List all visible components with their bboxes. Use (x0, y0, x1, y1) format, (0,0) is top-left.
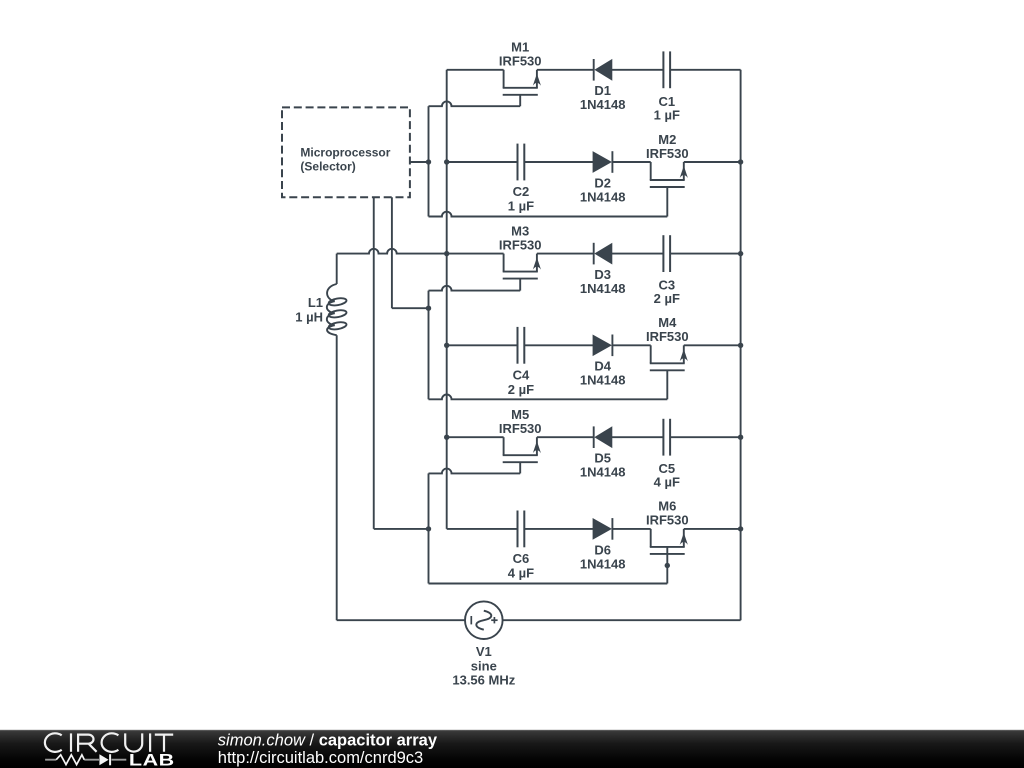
wire M1 gate (429, 101, 521, 106)
svg-text:1N4148: 1N4148 (580, 189, 626, 204)
wire row1 M1-to-D1 (537, 69, 594, 71)
svg-text:IRF530: IRF530 (646, 329, 689, 344)
wire gate bus pair 1 (428, 106, 430, 216)
wire row6 rail-to-C6 (447, 528, 518, 530)
footer bar (0, 730, 1024, 768)
svg-text:http://circuitlab.com/cnrd9c3: http://circuitlab.com/cnrd9c3 (218, 749, 423, 767)
wire row4 C4-to-D4 (524, 344, 593, 346)
transistor M5 IRF530 (503, 437, 541, 473)
wire left rail bus B (446, 70, 448, 529)
svg-text:C2: C2 (513, 184, 530, 199)
label C2 (513, 184, 530, 199)
label C1 value 1uF (654, 107, 680, 122)
CircuitLab logo LAB lettering (129, 752, 175, 768)
wire row4 D4-to-M4 (612, 344, 650, 346)
wire M6 gate (429, 583, 668, 585)
label C4 value 2uF (508, 382, 534, 397)
wire row5 rail-to-M5 (447, 436, 504, 438)
wire L1 bottom lead (336, 335, 338, 620)
transistor M6 IRF530 (body tied to gate) (650, 529, 688, 584)
label M5 (511, 407, 529, 422)
label D3 (594, 267, 611, 282)
label M1 value IRF530 (499, 54, 542, 69)
label D1 (594, 83, 611, 98)
svg-text:LAB: LAB (129, 752, 175, 768)
svg-text:C6: C6 (513, 551, 530, 566)
svg-text:Microprocessor: Microprocessor (300, 145, 390, 159)
diode D4 1N4148 (593, 335, 612, 357)
label L1 value 1uH (295, 310, 323, 325)
label M6 (658, 499, 676, 514)
label D2 value 1N4148 (580, 189, 626, 204)
node right rail junction row 3 (738, 251, 743, 256)
wire select line 2 vertical (U1 to pair 2) (391, 197, 393, 308)
diode D3 1N4148 (594, 243, 612, 265)
wire row6 D6-to-M6 (612, 528, 650, 530)
wire row5 M5-to-D5 (537, 436, 594, 438)
svg-text:C4: C4 (513, 367, 530, 382)
label M4 value IRF530 (646, 329, 689, 344)
svg-text:13.56 MHz: 13.56 MHz (452, 672, 515, 687)
wire row2 D2-to-M2 (612, 161, 650, 163)
svg-text:L1: L1 (308, 295, 323, 310)
wire row1 D1-to-C1 (612, 69, 664, 71)
transistor M2 IRF530 (650, 162, 688, 217)
svg-text:D3: D3 (594, 267, 611, 282)
wire row3 C3-to-rail (670, 253, 741, 255)
capacitor C2 1uF (518, 144, 525, 181)
svg-text:V1: V1 (476, 644, 492, 659)
diode D5 1N4148 (594, 426, 612, 448)
transistor M3 IRF530 (503, 254, 541, 291)
wire M2 gate (429, 212, 668, 217)
svg-text:M6: M6 (658, 499, 676, 514)
svg-text:IRF530: IRF530 (499, 237, 542, 252)
wire row2 C2-to-D2 (524, 161, 593, 163)
svg-text:simon.chow / capacitor array: simon.chow / capacitor array (218, 732, 438, 750)
wire row6 C6-to-D6 (524, 528, 593, 530)
label M2 value IRF530 (646, 146, 689, 161)
svg-text:1 µF: 1 µF (508, 199, 534, 214)
label D3 value 1N4148 (580, 281, 626, 296)
svg-text:M1: M1 (511, 40, 529, 55)
label M5 value IRF530 (499, 421, 542, 436)
capacitor C3 2uF (663, 235, 670, 272)
CircuitLab logo CIRCUIT lettering (45, 733, 173, 752)
label M3 (511, 223, 529, 238)
svg-text:1 µH: 1 µH (295, 310, 323, 325)
svg-text:M3: M3 (511, 223, 529, 238)
label M3 value IRF530 (499, 237, 542, 252)
svg-text:IRF530: IRF530 (646, 146, 689, 161)
node right rail junction row 2 (738, 159, 743, 164)
node right rail junction row 6 (738, 526, 743, 531)
svg-text:M5: M5 (511, 407, 529, 422)
diode D1 1N4148 (594, 59, 612, 81)
capacitor C4 2uF (518, 327, 525, 364)
label C3 (658, 278, 675, 293)
wire row2 rail-to-C2 (447, 161, 518, 163)
svg-text:1N4148: 1N4148 (580, 465, 626, 480)
label C1 (658, 94, 675, 109)
node right rail junction row 5 (738, 435, 743, 440)
wire row5 C5-to-rail (670, 436, 741, 438)
svg-text:M2: M2 (658, 132, 676, 147)
svg-text:2 µF: 2 µF (508, 382, 534, 397)
node rail-C4 junction (444, 343, 449, 348)
capacitor C1 1uF (663, 51, 670, 88)
wire gate bus pair 2 (428, 291, 430, 400)
wire gate bus pair 3 (428, 473, 430, 583)
label V1 type sine (471, 659, 497, 674)
label D5 (594, 451, 611, 466)
node rail-C2 junction (444, 159, 449, 164)
svg-text:M4: M4 (658, 315, 677, 330)
diode D2 1N4148 (593, 151, 612, 173)
label D6 value 1N4148 (580, 556, 626, 571)
wire select line 1 (U1 to bus A pair 1) (410, 161, 429, 163)
capacitor C5 4uF (663, 419, 670, 456)
wire row1 C1-to-rail (670, 69, 741, 71)
transistor M1 IRF530 (503, 70, 541, 106)
label U1 Microprocessor (300, 145, 390, 159)
wire row3 D3-to-C3 (612, 253, 664, 255)
wire select line 3 horizontal (374, 528, 429, 530)
label V1 value 13.56 MHz (452, 672, 515, 687)
wire M5 gate (429, 469, 521, 474)
label M2 (658, 132, 676, 147)
svg-text:IRF530: IRF530 (499, 421, 542, 436)
wire select line 2 horizontal (392, 307, 429, 309)
node rail-L1-M3 junction (444, 251, 449, 256)
wire row2 M2-to-rail (684, 161, 741, 163)
svg-text:D1: D1 (594, 83, 611, 98)
svg-text:1N4148: 1N4148 (580, 281, 626, 296)
svg-text:D4: D4 (594, 359, 611, 374)
label C6 value 4uF (508, 565, 534, 580)
wire row4 rail-to-C4 (447, 344, 518, 346)
label C5 value 4uF (654, 475, 680, 490)
wire row1 rail-to-M1 (447, 69, 504, 71)
label D1 value 1N4148 (580, 97, 626, 112)
transistor M4 IRF530 (650, 345, 688, 399)
node select 3 junction (426, 526, 431, 531)
svg-text:D6: D6 (594, 542, 611, 557)
svg-text:(Selector): (Selector) (300, 160, 355, 174)
wire row3 L1-to-rail (hops over select lines) (337, 249, 447, 254)
microprocessor U1 (selector) box (282, 107, 410, 197)
svg-text:D5: D5 (594, 451, 611, 466)
svg-text:1N4148: 1N4148 (580, 556, 626, 571)
wire row5 D5-to-C5 (612, 436, 664, 438)
label M4 (658, 315, 677, 330)
svg-text:sine: sine (471, 659, 497, 674)
wire right rail (740, 70, 742, 620)
wire row6 M6-to-rail (684, 528, 741, 530)
svg-text:D2: D2 (594, 175, 611, 190)
svg-text:1N4148: 1N4148 (580, 373, 626, 388)
node select 2 junction (426, 306, 431, 311)
footer url http://circuitlab.com/cnrd9c3 (218, 749, 423, 767)
label M6 value IRF530 (646, 513, 689, 528)
label U1 (Selector) (300, 160, 355, 174)
label D4 value 1N4148 (580, 373, 626, 388)
label C4 (513, 367, 530, 382)
label C2 value 1uF (508, 199, 534, 214)
svg-text:4 µF: 4 µF (508, 565, 534, 580)
capacitor C6 4uF (518, 511, 525, 548)
node select 1 junction (426, 159, 431, 164)
svg-text:2 µF: 2 µF (654, 291, 680, 306)
label D2 (594, 175, 611, 190)
label D5 value 1N4148 (580, 465, 626, 480)
wire L1 top lead (336, 254, 338, 284)
label D6 (594, 542, 611, 557)
wire row3 rail-to-M3 (447, 253, 504, 255)
label M1 (511, 40, 529, 55)
label L1 (308, 295, 323, 310)
label D4 (594, 359, 611, 374)
wire bottom right (V1 to rail) (503, 619, 741, 621)
svg-text:1 µF: 1 µF (654, 107, 680, 122)
node right rail junction row 4 (738, 343, 743, 348)
CircuitLab logo resistor-diode glyph (45, 754, 126, 765)
wire bottom left (L1 to V1) (337, 619, 465, 621)
label C6 (513, 551, 530, 566)
svg-text:1N4148: 1N4148 (580, 97, 626, 112)
wire M3 gate (429, 286, 521, 291)
wire M4 gate (429, 394, 668, 399)
diode D6 1N4148 (593, 518, 612, 540)
node rail-M5 junction (444, 435, 449, 440)
wire row4 M4-to-rail (684, 344, 741, 346)
inductor L1 1uH coil (327, 284, 347, 335)
wire row3 M3-to-D3 (537, 253, 594, 255)
label V1 (476, 644, 492, 659)
wire select line 3 vertical (U1 to pair 3) (373, 197, 375, 529)
svg-text:IRF530: IRF530 (499, 54, 542, 69)
voltage source V1 sine (465, 601, 503, 639)
footer title simon.chow / capacitor array (218, 732, 438, 750)
svg-text:IRF530: IRF530 (646, 513, 689, 528)
label C5 (658, 461, 675, 476)
label C3 value 2uF (654, 291, 680, 306)
svg-text:4 µF: 4 µF (654, 475, 680, 490)
